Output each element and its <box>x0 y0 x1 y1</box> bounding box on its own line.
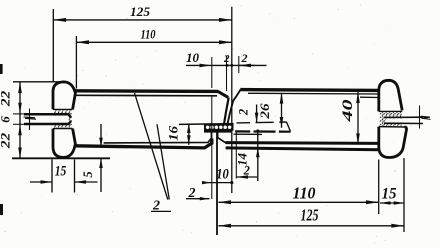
dimension 125 top <box>53 4 232 22</box>
svg-text:10: 10 <box>186 51 200 65</box>
wire: extension line left of 125 top <box>52 9 54 82</box>
svg-text:40: 40 <box>340 100 356 124</box>
svg-text:26: 26 <box>258 103 272 120</box>
svg-text:6: 6 <box>0 116 13 123</box>
left plank scarf edge <box>224 98 229 127</box>
svg-text:22: 22 <box>0 132 13 149</box>
dimension 110 bottom <box>218 184 378 205</box>
right plank bottom edge upper <box>225 141 379 145</box>
right plank top edge thin <box>248 92 379 95</box>
right capsule slot stipple <box>380 112 402 126</box>
strip bar through right capsule <box>384 117 423 123</box>
bottom center cluster: ext lines <box>211 96 213 199</box>
right plank bottom left corner <box>218 132 226 143</box>
wire: center extension line <box>231 7 233 193</box>
slot end slant right <box>287 122 291 132</box>
break line on right bar <box>420 106 431 129</box>
right capsule upper lobe <box>379 80 402 111</box>
svg-text:10: 10 <box>216 167 229 183</box>
svg-text:125: 125 <box>130 4 151 19</box>
page edge artifact top-left <box>0 64 3 74</box>
baseline under left capsule <box>12 157 110 159</box>
label 2 bottom with arrow <box>186 186 210 201</box>
thin ledge line right of hatch <box>234 133 263 135</box>
left plank bottom edge thick <box>75 139 212 148</box>
dimension 2 top middle (dot ticks) <box>223 53 233 91</box>
left capsule lower lobe <box>53 129 75 158</box>
dimension chain 22/6/22 left <box>0 82 60 159</box>
extension lines bottom right <box>378 160 380 215</box>
svg-text:5: 5 <box>81 171 95 177</box>
svg-text:2: 2 <box>223 53 230 65</box>
dimension 40 <box>340 92 380 145</box>
dimension 10 top <box>186 51 255 88</box>
dimension 14 <box>236 129 260 181</box>
svg-text:22: 22 <box>0 90 13 107</box>
left capsule slot bottom edge <box>53 128 73 130</box>
right capsule lower lobe <box>379 127 407 158</box>
svg-text:110: 110 <box>293 184 316 203</box>
svg-text:16: 16 <box>167 125 181 141</box>
left plank top edge thick <box>74 89 219 93</box>
left capsule slot top edge <box>53 108 73 110</box>
left plank right end chamfer <box>218 91 229 97</box>
left plank top edge thin <box>75 94 217 97</box>
right plank scarf edge <box>227 89 241 126</box>
left capsule slot stipple <box>54 110 72 128</box>
left plank bottom edge thin <box>104 132 212 143</box>
svg-text:125: 125 <box>301 206 319 225</box>
right capsule slot bottom edge <box>379 126 406 128</box>
right plank bottom edge lower <box>226 148 379 150</box>
left capsule upper lobe <box>53 82 75 110</box>
dimension 2 bottom right small <box>236 132 257 179</box>
svg-text:15: 15 <box>55 164 67 180</box>
dimension 2 mid right <box>237 105 259 123</box>
slot hidden line upper (left part + dashes right) <box>179 122 287 124</box>
dimension 15 bottom left <box>30 160 98 193</box>
svg-text:15: 15 <box>382 186 397 203</box>
wire: extension line left of 110 top <box>75 36 77 89</box>
dimension 5 left <box>81 124 103 192</box>
page edge artifact bottom-left <box>0 204 3 215</box>
svg-text:110: 110 <box>141 27 156 42</box>
solder hatch band <box>204 124 234 131</box>
slot hidden line lower (hatch bottom + dashes right) <box>204 130 291 133</box>
svg-text:2: 2 <box>237 109 251 116</box>
right plank top edge thick <box>240 88 378 92</box>
dimension 26 <box>258 93 283 128</box>
strip bar through left capsule <box>24 114 71 124</box>
dimension 10 bottom <box>202 167 233 185</box>
dimension 110 top <box>76 27 231 45</box>
dimension 125 bottom <box>218 206 404 228</box>
dimension 15 bottom right <box>380 186 404 205</box>
dimension 2 top right <box>239 51 267 73</box>
dimension 16 <box>167 123 191 144</box>
break line on left bar <box>24 109 37 131</box>
svg-text:2: 2 <box>243 164 250 178</box>
right capsule slot top edge <box>379 110 402 112</box>
svg-text:2: 2 <box>241 51 248 65</box>
label 2 with leaders (wall thickness) <box>135 93 172 214</box>
